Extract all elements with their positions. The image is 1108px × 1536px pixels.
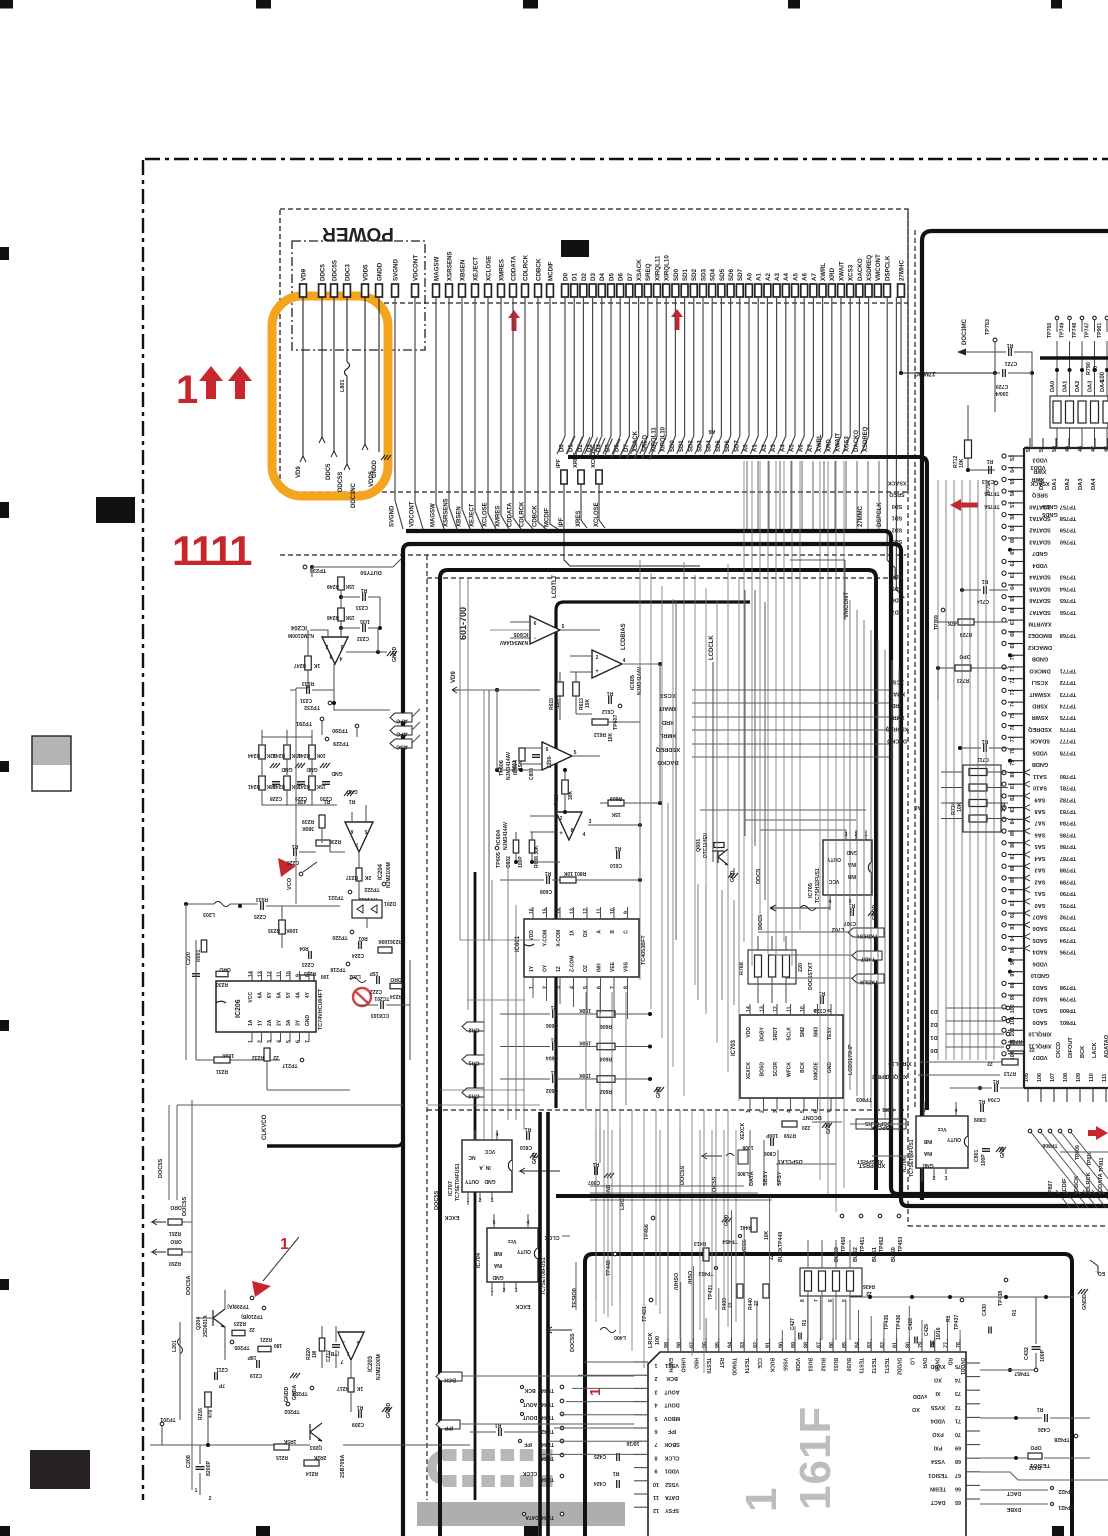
svg-text:9: 9 (655, 1468, 658, 1474)
svg-text:GND: GND (656, 1086, 662, 1098)
svg-text:CH3: CH3 (468, 1093, 479, 1099)
svg-text:VD9: VD9 (300, 268, 307, 281)
svg-text:SA2: SA2 (1035, 878, 1046, 884)
R235 100K (279, 920, 286, 934)
svg-text:TP441: TP441 (538, 1514, 554, 1520)
svg-text:CDDATA: CDDATA (510, 255, 517, 281)
svg-text:10: 10 (1093, 366, 1099, 372)
svg-text:SM2: SM2 (800, 1027, 806, 1038)
op-amp IC204b (345, 822, 373, 852)
pins IPF XRES XCLOSE (561, 470, 567, 484)
svg-text:R247: R247 (294, 662, 306, 668)
svg-text:SA10: SA10 (1033, 785, 1047, 791)
svg-text:6A: 6A (258, 992, 264, 999)
svg-text:GNDB: GNDB (1032, 656, 1048, 662)
svg-text:BMODE2: BMODE2 (1028, 632, 1052, 638)
svg-text:TP791: TP791 (1060, 902, 1076, 908)
svg-text:R610: R610 (554, 794, 560, 806)
svg-text:TP763: TP763 (1060, 574, 1076, 580)
svg-text:LCDCLK: LCDCLK (709, 635, 715, 660)
svg-text:TXCLK: TXCLK (860, 979, 879, 985)
svg-text:TP788: TP788 (1060, 867, 1076, 873)
svg-text:27MHC: 27MHC (898, 259, 905, 281)
svg-text:DA2: DA2 (1075, 381, 1081, 392)
svg-text:73: 73 (955, 1390, 961, 1396)
svg-text:DACKO: DACKO (657, 759, 679, 765)
svg-text:A4: A4 (780, 444, 786, 452)
resistor array R790 DA lines (1050, 396, 1108, 428)
svg-text:TP781: TP781 (1060, 785, 1076, 791)
svg-text:59: 59 (1010, 525, 1016, 531)
svg-text:TP232: TP232 (304, 704, 320, 710)
svg-text:SAD0: SAD0 (1033, 1019, 1048, 1025)
thick line y1196 (556, 1194, 1108, 1198)
svg-text:C604: C604 (546, 1055, 558, 1061)
svg-text:TP443: TP443 (538, 1455, 554, 1461)
svg-text:TP445: TP445 (538, 1414, 554, 1420)
svg-text:SA7: SA7 (1035, 820, 1046, 826)
svg-text:XDSPRST: XDSPRST (856, 1158, 883, 1164)
svg-text:22: 22 (987, 1060, 993, 1066)
svg-text:SD4: SD4 (710, 268, 717, 281)
svg-text:R801 10K: R801 10K (563, 870, 586, 876)
svg-text:TP901: TP901 (1097, 323, 1103, 338)
svg-text:CH2: CH2 (468, 1027, 479, 1033)
op-amp IC604b (556, 812, 582, 840)
op-amp IC605a (530, 616, 560, 644)
svg-text:D7: D7 (627, 273, 634, 281)
svg-text:SA6: SA6 (1035, 831, 1046, 837)
svg-text:-: - (534, 636, 536, 642)
svg-text:IC703: IC703 (731, 1039, 737, 1056)
svg-text:XBSEN: XBSEN (459, 259, 466, 281)
svg-text:71: 71 (1010, 666, 1016, 672)
svg-text:2: 2 (209, 1496, 212, 1502)
svg-text:DDC5: DDC5 (756, 869, 762, 884)
svg-text:SD6: SD6 (728, 268, 735, 281)
svg-text:DDC3: DDC3 (344, 264, 351, 281)
svg-text:R1: R1 (361, 587, 368, 593)
svg-text:6: 6 (814, 1110, 820, 1113)
svg-text:C432: C432 (1024, 1347, 1030, 1360)
svg-text:DACKO: DACKO (857, 258, 864, 281)
svg-text:IC707: IC707 (448, 1181, 454, 1196)
svg-text:GND: GND (331, 770, 343, 776)
svg-text:VSS1: VSS1 (665, 1362, 679, 1368)
C807 R1 DOC5S wire (595, 1167, 598, 1175)
svg-text:R604: R604 (600, 1056, 612, 1062)
svg-text:3Y: 3Y (296, 1019, 302, 1026)
svg-text:C208: C208 (186, 1455, 192, 1468)
svg-text:6Y: 6Y (267, 991, 273, 998)
svg-text:96: 96 (1010, 959, 1016, 965)
svg-text:XAVRTM: XAVRTM (1028, 620, 1052, 626)
svg-text:75: 75 (955, 1363, 961, 1369)
svg-text:DSPCLK5: DSPCLK5 (777, 1158, 802, 1164)
svg-text:C807: C807 (588, 1179, 600, 1185)
svg-text:150K: 150K (579, 1007, 591, 1013)
svg-text:DOC5S: DOC5S (158, 1158, 164, 1178)
svg-text:TP807: TP807 (1048, 1181, 1054, 1196)
svg-text:C: C (624, 930, 630, 934)
svg-text:1: 1 (655, 1362, 658, 1368)
svg-text:XWRL: XWRL (820, 263, 827, 281)
svg-text:5: 5 (842, 1299, 848, 1302)
svg-text:60: 60 (1010, 537, 1016, 543)
svg-text:XMAIT: XMAIT (659, 705, 677, 711)
svg-text:BUS1: BUS1 (832, 1358, 838, 1372)
svg-text:1X: 1X (570, 929, 576, 936)
svg-text:75: 75 (1010, 713, 1016, 719)
extra vertical harness mid (639, 560, 641, 980)
svg-text:A7: A7 (811, 273, 818, 281)
svg-text:C231: C231 (300, 697, 312, 703)
svg-text:GND6: GND6 (1042, 503, 1058, 509)
svg-text:C714: C714 (977, 598, 989, 604)
svg-text:81: 81 (1010, 783, 1016, 789)
svg-text:1: 1 (737, 1488, 786, 1512)
svg-text:83: 83 (867, 1342, 873, 1348)
svg-text:2Y: 2Y (277, 1019, 283, 1026)
svg-text:49: 49 (1065, 446, 1071, 452)
svg-text:107: 107 (1050, 1073, 1056, 1082)
svg-text:61: 61 (1010, 549, 1016, 555)
svg-text:91: 91 (766, 1342, 772, 1348)
svg-text:11: 11 (277, 971, 283, 977)
wires bottom center verticals (595, 1130, 597, 1322)
svg-text:XRD: XRD (891, 702, 902, 708)
svg-text:BUS1: BUS1 (872, 1247, 878, 1262)
svg-text:DACT: DACT (930, 1499, 946, 1505)
svg-text:TP795: TP795 (1060, 949, 1076, 955)
wires between buses (746, 461, 748, 529)
svg-text:VDD3: VDD3 (1031, 464, 1046, 470)
svg-text:XVDD: XVDD (930, 1363, 945, 1369)
svg-text:TP811: TP811 (1099, 1157, 1105, 1172)
svg-text:62: 62 (1010, 560, 1016, 566)
svg-text:VD9: VD9 (451, 671, 457, 683)
svg-text:XCS3: XCS3 (845, 436, 851, 452)
svg-text:R221: R221 (260, 1336, 272, 1342)
svg-text:LCB9170HP: LCB9170HP (848, 1044, 854, 1075)
svg-text:6: 6 (534, 621, 537, 627)
svg-text:XIRQL11: XIRQL11 (884, 1073, 907, 1079)
svg-text:SD3: SD3 (892, 538, 903, 544)
svg-text:IC704: IC704 (476, 1252, 482, 1268)
svg-text:R768: R768 (739, 962, 745, 975)
svg-text:VDD4: VDD4 (931, 1417, 945, 1423)
svg-text:R1: R1 (1037, 1406, 1044, 1412)
svg-text:8: 8 (655, 1454, 658, 1460)
svg-text:DMCKO: DMCKO (1029, 667, 1051, 673)
svg-text:DA4: DA4 (1091, 478, 1097, 490)
svg-text:DDC5: DDC5 (319, 264, 326, 281)
svg-text:GND: GND (826, 1122, 832, 1134)
svg-text:C711: C711 (977, 756, 989, 762)
svg-text:DOC5S: DOC5S (680, 1165, 686, 1185)
svg-text:NJM3414AV: NJM3414AV (503, 821, 509, 850)
svg-text:2SB709A: 2SB709A (340, 1455, 346, 1478)
IC707 TC7SET04FUS1 (462, 1140, 512, 1192)
svg-text:CLCK: CLCK (664, 1454, 679, 1460)
svg-text:L702: L702 (832, 926, 844, 932)
svg-text:5: 5 (364, 828, 367, 834)
svg-text:TP764: TP764 (1059, 585, 1076, 591)
svg-text:100: 100 (1010, 1004, 1016, 1013)
svg-text:8: 8 (571, 828, 574, 834)
wire VD9 (302, 297, 304, 457)
R247 1K (305, 656, 312, 670)
svg-text:R243: R243 (298, 783, 310, 789)
svg-text:C810: C810 (520, 1144, 532, 1150)
registration marks left edge (0, 247, 9, 260)
gray/white calibration swatch (32, 736, 71, 765)
svg-text:TP452: TP452 (879, 1237, 885, 1252)
page border dash-dot top (145, 158, 1108, 160)
svg-text:R250: R250 (169, 1260, 181, 1266)
svg-text:CDDATA: CDDATA (508, 502, 514, 527)
svg-text:TP756: TP756 (984, 503, 999, 509)
svg-text:IPF: IPF (667, 1428, 676, 1434)
svg-text:10K: 10K (316, 752, 326, 758)
svg-text:3A: 3A (286, 1019, 292, 1026)
svg-text:DSPCLK: DSPCLK (884, 255, 891, 281)
svg-text:XBSEN: XBSEN (457, 506, 463, 527)
svg-text:TP765: TP765 (1060, 597, 1076, 603)
svg-text:AOUT: AOUT (664, 1388, 680, 1394)
svg-text:4: 4 (277, 1040, 283, 1043)
svg-text:xVDD: xVDD (913, 1393, 927, 1399)
svg-text:IC203: IC203 (368, 1355, 374, 1372)
svg-text:92: 92 (753, 1342, 759, 1348)
svg-text:10/16: 10/16 (936, 1327, 942, 1340)
svg-text:CC8103: CC8103 (371, 1012, 390, 1018)
svg-text:601-700: 601-700 (458, 607, 468, 640)
svg-text:TP431: TP431 (642, 1306, 648, 1322)
svg-text:TXDT: TXDT (860, 956, 875, 962)
svg-text:VDD7: VDD7 (1033, 1054, 1048, 1060)
svg-text:DA1: DA1 (1052, 478, 1058, 490)
svg-text:7P: 7P (218, 1382, 225, 1388)
svg-text:76: 76 (956, 1342, 962, 1348)
svg-text:C232: C232 (357, 635, 369, 641)
top header pin row (300, 284, 307, 297)
svg-text:15: 15 (543, 908, 549, 914)
svg-text:A7: A7 (808, 444, 814, 452)
svg-text:85: 85 (842, 1342, 848, 1348)
svg-text:22: 22 (249, 1326, 255, 1332)
svg-text:2: 2 (560, 816, 563, 822)
svg-text:BUCK: BUCK (769, 1358, 775, 1373)
svg-text:7: 7 (340, 1358, 343, 1364)
black patch left middle (96, 497, 135, 523)
svg-text:XI: XI (935, 1390, 941, 1396)
svg-text:TP456: TP456 (644, 1224, 650, 1240)
svg-text:TP794: TP794 (1059, 937, 1076, 943)
R734 resistor array 10K (963, 765, 1001, 832)
svg-text:WFCK: WFCK (787, 1062, 793, 1077)
svg-text:OPO: OPO (1030, 1444, 1041, 1450)
section dashed line y555 (280, 554, 906, 556)
svg-text:65: 65 (955, 1499, 961, 1505)
svg-text:92: 92 (1010, 912, 1016, 918)
svg-text:90: 90 (778, 1342, 784, 1348)
svg-text:R436: R436 (863, 1283, 875, 1289)
svg-text:83: 83 (1010, 807, 1016, 813)
svg-text:BCK: BCK (444, 1377, 456, 1383)
svg-text:GND: GND (305, 1015, 311, 1027)
svg-text:VDD: VDD (746, 1027, 752, 1038)
svg-text:A0: A0 (746, 273, 753, 281)
power connector dash-dot box (292, 241, 425, 350)
svg-text:-: - (343, 1338, 345, 1344)
dashed vertical x908 (907, 209, 909, 1226)
svg-text:XWAIT: XWAIT (838, 261, 845, 281)
svg-text:TP748: TP748 (1072, 323, 1078, 338)
svg-text:C602: C602 (546, 1087, 558, 1093)
svg-text:A6: A6 (799, 444, 805, 452)
svg-text:TP421: TP421 (1058, 1504, 1073, 1510)
svg-text:15K: 15K (585, 698, 591, 708)
svg-text:100/4: 100/4 (995, 390, 1008, 396)
svg-text:15K: 15K (345, 583, 355, 589)
svg-text:VDCONT: VDCONT (412, 255, 419, 281)
junction dots 601 section (495, 768, 499, 772)
wire VMCONT DSPCLK 27MHC (887, 297, 895, 580)
svg-text:TP793: TP793 (1060, 925, 1076, 931)
svg-text:2: 2 (760, 1110, 766, 1113)
svg-text:R1: R1 (1012, 1309, 1018, 1316)
svg-text:+: + (595, 669, 599, 675)
svg-text:D4: D4 (599, 273, 606, 281)
svg-text:OPO: OPO (959, 653, 970, 659)
svg-text:SDACK: SDACK (1030, 738, 1050, 744)
svg-text:LO: LO (908, 1358, 914, 1365)
svg-text:TP448: TP448 (606, 1260, 612, 1276)
svg-text:A2: A2 (765, 273, 772, 281)
svg-text:TP454: TP454 (722, 1238, 737, 1244)
svg-text:VDD5: VDD5 (1033, 749, 1048, 755)
svg-text:SA3: SA3 (1035, 867, 1046, 873)
svg-text:1: 1 (346, 1350, 349, 1356)
svg-text:SD6: SD6 (725, 440, 731, 452)
svg-text:TP442: TP442 (538, 1476, 554, 1482)
svg-text:DVR: DVR (921, 1358, 927, 1369)
C231 R033 TP232 (307, 686, 310, 694)
svg-text:VDD: VDD (529, 930, 535, 941)
svg-text:85: 85 (1010, 830, 1016, 836)
svg-text:66: 66 (1010, 607, 1016, 613)
svg-text:82: 82 (880, 1342, 886, 1348)
svg-text:VDD5: VDD5 (362, 264, 369, 281)
svg-text:TP435: TP435 (884, 1315, 890, 1330)
svg-text:TP451: TP451 (860, 1237, 866, 1252)
svg-text:R1: R1 (615, 845, 622, 851)
page border dash-dot left (142, 160, 144, 1500)
svg-text:DACKO: DACKO (854, 430, 860, 452)
svg-text:XMRES: XMRES (496, 506, 502, 527)
svg-text:78: 78 (1010, 748, 1016, 754)
svg-text:70: 70 (955, 1431, 961, 1437)
R217 1K (348, 1378, 354, 1392)
svg-text:XSWR: XSWR (1032, 714, 1049, 720)
svg-text:SDATA3: SDATA3 (1029, 538, 1051, 544)
misc center horizontal wires (460, 939, 540, 941)
svg-text:R714: R714 (1010, 1038, 1022, 1044)
svg-text:15P: 15P (369, 970, 379, 976)
C610 R1 (617, 851, 620, 859)
svg-text:12: 12 (653, 1507, 659, 1513)
svg-text:Q203: Q203 (310, 1444, 322, 1450)
svg-text:10: 10 (286, 971, 292, 977)
svg-text:IPF: IPF (524, 1441, 532, 1447)
svg-text:R790: R790 (1086, 362, 1092, 375)
svg-text:C225: C225 (254, 913, 266, 919)
svg-text:INH: INH (597, 963, 603, 972)
svg-text:DDC5S: DDC5S (331, 260, 338, 281)
svg-text:79: 79 (1010, 760, 1016, 766)
svg-text:TP773: TP773 (1060, 691, 1076, 697)
svg-text:XRD: XRD (829, 267, 836, 281)
svg-text:DA1: DA1 (1063, 381, 1069, 392)
svg-text:R246: R246 (298, 752, 310, 758)
svg-text:3: 3 (655, 1388, 658, 1394)
svg-text:55: 55 (1010, 478, 1016, 484)
svg-text:DOC3MC: DOC3MC (962, 318, 968, 345)
svg-text:XSRSENS: XSRSENS (446, 251, 453, 281)
svg-text:VCC: VCC (484, 1148, 495, 1154)
svg-text:93: 93 (1010, 924, 1016, 930)
svg-text:XCS3: XCS3 (848, 264, 855, 281)
svg-text:GND: GND (724, 1215, 730, 1227)
svg-text:R612: R612 (594, 731, 606, 737)
R248 15K (338, 608, 345, 621)
red left arrow near TP756 (950, 499, 978, 511)
svg-text:L400: L400 (614, 1334, 626, 1340)
gray marker dashed stroke (443, 1449, 457, 1461)
svg-text:TC74VHCU04FT: TC74VHCU04FT (318, 988, 324, 1030)
svg-text:73: 73 (1010, 689, 1016, 695)
GNDD right bottom (1078, 1289, 1088, 1294)
IC206 TC74VHCU04FT (216, 981, 316, 1032)
svg-text:TP760: TP760 (1060, 538, 1076, 544)
svg-text:18P: 18P (247, 1354, 257, 1360)
svg-text:91: 91 (1010, 900, 1016, 906)
op-amp IC203 (338, 1332, 364, 1360)
svg-text:88: 88 (804, 1342, 810, 1348)
svg-text:R1: R1 (802, 1319, 808, 1326)
svg-text:ORO: ORO (170, 1238, 182, 1244)
svg-text:TP776: TP776 (1060, 726, 1076, 732)
svg-text:Y-COM: Y-COM (543, 930, 549, 946)
svg-text:A5: A5 (792, 273, 799, 281)
svg-text:TP429: TP429 (538, 1428, 554, 1434)
svg-text:98: 98 (677, 1342, 683, 1348)
svg-text:ASC: ASC (396, 744, 408, 750)
svg-text:OUTY: OUTY (516, 1248, 531, 1254)
R612 15K TP607 (592, 719, 608, 725)
svg-text:R232: R232 (252, 1054, 264, 1060)
svg-text:TC7SET08FUS1: TC7SET08FUS1 (909, 1139, 915, 1177)
BUS pull-up cluster (800, 1268, 862, 1296)
svg-text:C233: C233 (356, 604, 368, 610)
svg-text:51: 51 (1039, 446, 1045, 452)
svg-text:TP747: TP747 (1085, 323, 1091, 338)
svg-text:TESIN: TESIN (930, 1485, 946, 1491)
svg-text:6: 6 (546, 747, 549, 753)
svg-text:IC204: IC204 (378, 863, 384, 880)
svg-text:C704: C704 (988, 1096, 1000, 1102)
